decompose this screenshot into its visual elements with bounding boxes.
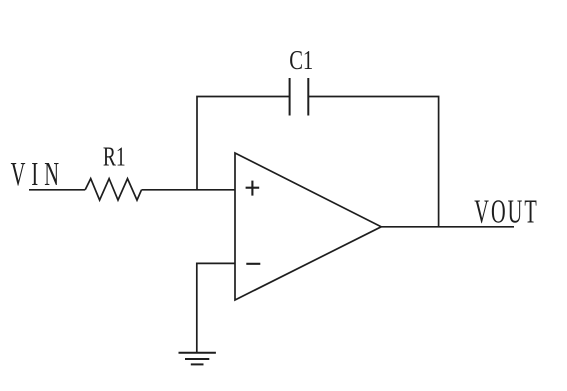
svg-text:R1: R1: [103, 142, 126, 172]
svg-text:C1: C1: [289, 45, 313, 75]
op-amp minus input marker: [246, 263, 260, 265]
ground symbol: [179, 352, 216, 354]
wire resistor to op-amp: [142, 189, 236, 191]
resistor R1: [85, 179, 141, 201]
capacitor C1 right plate: [307, 78, 309, 116]
wire minus input and down to ground: [197, 263, 235, 352]
wire top-right and down to output: [308, 97, 438, 227]
svg-text:VIN: VIN: [11, 156, 66, 193]
op-amp U1 triangle: [235, 153, 381, 300]
op-amp plus input marker: [246, 187, 260, 189]
wire feedback node up and top-left: [197, 97, 290, 190]
svg-text:VOUT: VOUT: [474, 193, 539, 230]
wire output: [381, 226, 514, 228]
capacitor C1 left plate: [289, 78, 291, 116]
wire VIN lead: [29, 189, 85, 191]
